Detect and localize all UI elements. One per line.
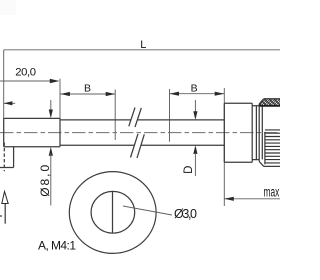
hidden line lower box — [3, 143, 5, 172]
arrow B-left west — [60, 92, 70, 96]
dimension max line — [224, 198, 280, 200]
head flange — [224, 103, 252, 162]
arrow D up — [193, 145, 197, 154]
arrow small left — [4, 101, 13, 105]
svg-text:L: L — [140, 39, 146, 51]
svg-text:max: max — [264, 184, 280, 199]
arrow B-right west — [170, 92, 180, 96]
view arrow A head — [2, 192, 8, 204]
knurl straight lines — [265, 130, 280, 163]
neck lines — [252, 106, 259, 160]
cylinder left body — [4, 118, 60, 146]
dimension B left line — [60, 93, 115, 95]
dimension D line lower — [194, 153, 196, 176]
knob left face — [258, 104, 260, 161]
knob bottom edge — [264, 165, 280, 167]
svg-text:20,0: 20,0 — [15, 67, 36, 79]
arrow B-right east — [215, 92, 225, 96]
svg-text:D: D — [183, 166, 195, 174]
dimension B right line — [170, 93, 225, 95]
corner tint — [0, 0, 16, 15]
dimension dia8 line upper — [50, 100, 52, 112]
extension line x60 — [59, 79, 61, 119]
knurl band bottom edge — [259, 105, 280, 107]
break mark slashes — [129, 108, 145, 159]
svg-text:Ø8,0: Ø8,0 — [38, 164, 52, 196]
arrow max left — [224, 197, 234, 201]
svg-text:B: B — [84, 83, 91, 95]
dimension 20,0 line — [0, 80, 59, 82]
dimension small arrow left — [4, 102, 16, 104]
svg-text:B: B — [191, 83, 198, 95]
view arrow A — [4, 204, 6, 224]
knob bottom chamfer — [259, 161, 264, 166]
centerline — [0, 132, 280, 134]
arrow 20,0 right — [50, 79, 60, 83]
detail circle outer — [69, 172, 156, 254]
slot line — [112, 192, 114, 233]
extension line x115 — [114, 90, 116, 141]
leader dia3 — [123, 206, 172, 215]
svg-text:A, M4:1: A, M4:1 — [38, 239, 76, 253]
knob top edge — [264, 98, 280, 100]
dimension L line — [4, 49, 280, 51]
knurl left boundary — [264, 132, 266, 164]
knob chamfer edge line — [261, 106, 263, 159]
arrow D down — [193, 111, 197, 120]
arrow B-left east — [106, 92, 116, 96]
arrow dia8 up — [49, 147, 53, 156]
detail circle inner — [91, 191, 135, 233]
shaft top line — [60, 119, 224, 121]
lower box bottom — [0, 167, 14, 169]
dimension dia8 line lower — [50, 154, 52, 206]
cut label tick — [0, 215, 2, 217]
knob top chamfer — [259, 99, 264, 104]
lower box right edge — [13, 147, 15, 168]
svg-text:Ø3,0: Ø3,0 — [174, 207, 197, 221]
shaft bottom line — [60, 144, 224, 146]
extension line left — [3, 50, 5, 119]
arrow dia8 down — [49, 110, 53, 119]
knurl hatch band — [252, 96, 295, 110]
extension line x169 — [169, 89, 171, 142]
dimension D line upper — [194, 100, 196, 112]
extension line head left face — [223, 88, 225, 206]
